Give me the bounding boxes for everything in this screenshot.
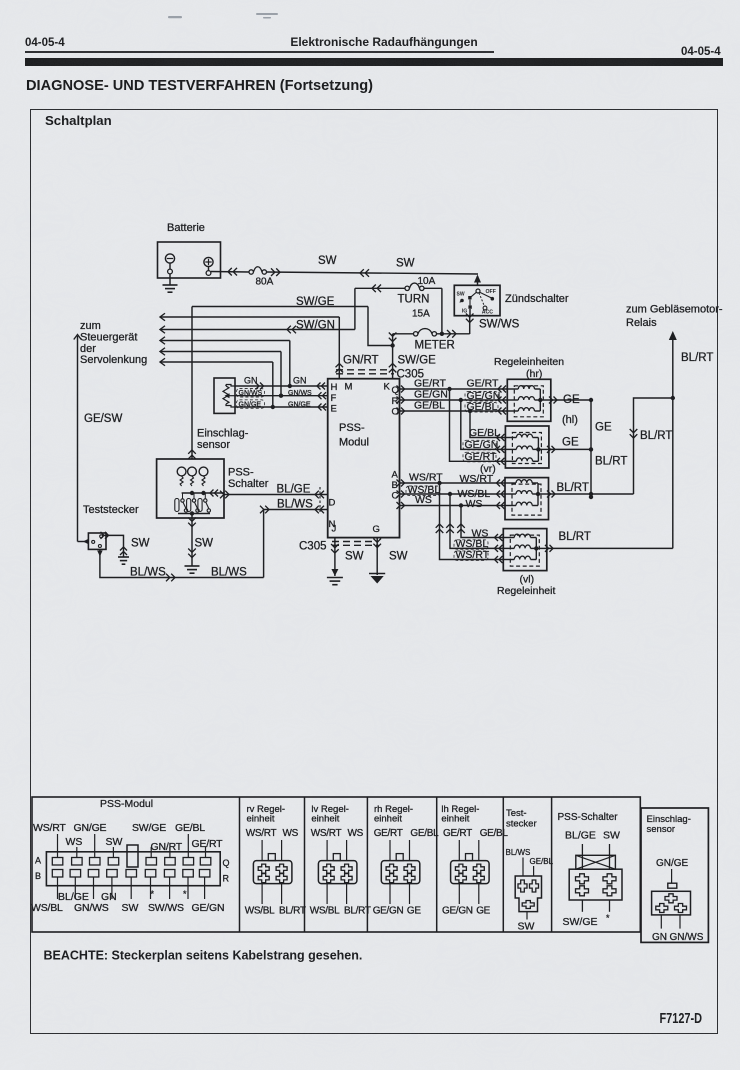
panel Test-stecker stub bottom bbox=[526, 912, 528, 920]
wire GN/GE sensor to E pin bbox=[235, 406, 328, 408]
label GN/WS (left) bbox=[237, 389, 265, 398]
wire GN tap vertical bbox=[288, 341, 292, 389]
svg-text:SW/GE: SW/GE bbox=[296, 296, 335, 308]
label panel PSS-Modul bbox=[100, 798, 153, 810]
wire steering 3 (GN tap) bbox=[160, 337, 290, 345]
panel Test-stecker label BL/WS bbox=[506, 848, 531, 857]
svg-text:GE: GE bbox=[407, 906, 421, 917]
svg-text:GE/BL: GE/BL bbox=[469, 427, 500, 439]
svg-text:PSS-Schalter: PSS-Schalter bbox=[558, 812, 619, 823]
label Einschlag-sensor (schematic) bbox=[197, 428, 249, 452]
label (vl) Regeleinheit bbox=[497, 574, 555, 598]
wire GE bus vertical bbox=[589, 400, 593, 499]
PSS switch upper bus bbox=[182, 490, 224, 497]
svg-text:(hl): (hl) bbox=[562, 414, 578, 426]
svg-text:BL/RT: BL/RT bbox=[557, 482, 589, 494]
label SW under G bbox=[389, 551, 408, 563]
svg-text:Zündschalter: Zündschalter bbox=[505, 293, 569, 305]
panel PSS-Schalter pins bbox=[576, 874, 617, 896]
svg-text:J: J bbox=[332, 524, 337, 535]
svg-text:WS: WS bbox=[283, 828, 299, 839]
svg-text:SW/WS: SW/WS bbox=[479, 319, 520, 331]
svg-text:K: K bbox=[384, 382, 391, 393]
label GE/BL (hl) bbox=[469, 427, 500, 439]
connector marks on BL/WS bottom wire bbox=[166, 574, 175, 582]
svg-text:PSS-: PSS- bbox=[339, 422, 365, 434]
panel Einschlag-sensor box bbox=[641, 808, 708, 942]
svg-text:GE/BL: GE/BL bbox=[480, 828, 509, 839]
svg-text:R: R bbox=[223, 874, 230, 884]
svg-text:GE: GE bbox=[595, 422, 612, 434]
svg-text:F: F bbox=[331, 393, 337, 404]
label GE (hl) bbox=[562, 437, 579, 449]
svg-text:*: * bbox=[606, 913, 610, 923]
svg-text:(vl): (vl) bbox=[520, 574, 535, 586]
connector panel outer box bbox=[32, 797, 640, 932]
label WS (1) bbox=[415, 494, 432, 506]
svg-text:SW: SW bbox=[345, 551, 364, 563]
svg-text:H: H bbox=[331, 382, 338, 393]
wire GE/BL from O pin bbox=[397, 408, 508, 415]
header thick rule bbox=[25, 58, 723, 66]
panel rh Regeleinheit bbox=[373, 804, 439, 917]
svg-text:Batterie: Batterie bbox=[167, 222, 205, 234]
label GE/GN (hl) bbox=[463, 439, 498, 451]
wire WS/RT drop to vl unit bbox=[436, 483, 504, 563]
svg-text:SW: SW bbox=[318, 255, 337, 267]
svg-text:GE/RT: GE/RT bbox=[192, 838, 224, 850]
svg-text:SW: SW bbox=[518, 921, 535, 933]
wire WS/BL from B pin bbox=[397, 491, 506, 498]
label SW at test connector bbox=[131, 538, 150, 550]
PSS switch lower bus bbox=[178, 511, 210, 515]
svg-text:GE/BL: GE/BL bbox=[414, 400, 445, 412]
svg-text:BL/RT: BL/RT bbox=[559, 531, 591, 543]
svg-text:BL/RT: BL/RT bbox=[595, 456, 627, 468]
pin R bbox=[392, 396, 399, 407]
panel PSS-Schalter stubs bottom bbox=[582, 900, 609, 912]
label GE/RT (hl) bbox=[463, 451, 497, 463]
label GE (bus) bbox=[595, 422, 612, 434]
svg-text:einheit: einheit bbox=[247, 814, 275, 825]
svg-text:Schalter: Schalter bbox=[228, 478, 269, 490]
svg-text:*: * bbox=[183, 889, 187, 899]
battery positive terminal bbox=[204, 257, 213, 275]
label GN/RT bbox=[343, 355, 379, 367]
svg-text:WS/RT: WS/RT bbox=[456, 549, 490, 561]
connector marks above C305 right bbox=[389, 364, 397, 373]
svg-text:BL/RT: BL/RT bbox=[681, 352, 713, 364]
svg-text:GE/BL: GE/BL bbox=[175, 822, 205, 834]
label WS/BL (1) bbox=[406, 484, 440, 496]
wire GE/RT drop to hl unit bbox=[450, 389, 506, 465]
wire SW/GE down jog to K node bbox=[368, 307, 395, 348]
svg-text:GE/BL: GE/BL bbox=[467, 401, 498, 413]
pin C bbox=[392, 491, 399, 502]
wire GN/GE tap vertical bbox=[271, 362, 275, 409]
pin G bbox=[373, 524, 380, 535]
pin Q bbox=[392, 385, 399, 396]
svg-text:GE/GN: GE/GN bbox=[373, 906, 404, 917]
wire SW/GE horizontal bbox=[192, 306, 368, 308]
wire WS/BL drop to vl unit bbox=[446, 494, 503, 552]
pin O bbox=[392, 407, 399, 418]
label (hl) bbox=[562, 414, 578, 426]
label GE/BL (1) bbox=[414, 400, 445, 412]
svg-text:GE: GE bbox=[562, 437, 579, 449]
panel PSS-Schalter labels top bbox=[565, 830, 620, 842]
label GE/BL (2) bbox=[465, 401, 498, 413]
panel Einschlag-sensor stubs bottom bbox=[661, 915, 680, 929]
svg-text:GE/GN: GE/GN bbox=[442, 906, 473, 917]
svg-text:GE/BL: GE/BL bbox=[410, 828, 439, 839]
label PSS-Schalter bbox=[228, 467, 269, 491]
svg-text:GE/RT: GE/RT bbox=[374, 828, 403, 839]
pin M bbox=[345, 382, 353, 393]
label WS/RT (1) bbox=[409, 472, 443, 484]
panel PSS-Schalter label SW/GE bbox=[563, 913, 611, 928]
panel Test-stecker label SW bbox=[518, 921, 535, 933]
svg-text:GN: GN bbox=[293, 376, 307, 386]
panel PSS-Modul labels top row1 bbox=[33, 822, 205, 834]
connector marks on battery wire bbox=[228, 268, 237, 276]
label WS/RT (2) bbox=[460, 473, 494, 485]
note BEACHTE bbox=[44, 949, 363, 963]
svg-text:E: E bbox=[331, 404, 337, 415]
svg-text:zum: zum bbox=[80, 320, 101, 332]
panel Test-stecker stubs top bbox=[523, 858, 534, 877]
label SW (right) bbox=[396, 258, 415, 270]
pin K bbox=[384, 382, 391, 393]
wire GE from hr unit bbox=[549, 397, 593, 404]
label WS (2) bbox=[466, 498, 483, 510]
svg-text:Teststecker: Teststecker bbox=[83, 504, 139, 516]
svg-text:WS: WS bbox=[66, 836, 83, 848]
svg-text:WS/RT: WS/RT bbox=[246, 828, 277, 839]
connector marks on PSS switch feed bbox=[188, 450, 196, 459]
steering angle sensor box bbox=[214, 378, 235, 413]
fuse 15A METER bbox=[414, 329, 437, 336]
panel PSS-Modul notch bbox=[127, 845, 138, 867]
panel PSS-Modul connector box bbox=[46, 852, 220, 886]
label Regeleinheiten bbox=[494, 356, 564, 380]
label BL/WS (left) bbox=[130, 567, 166, 579]
svg-text:zum Gebläsemotor-: zum Gebläsemotor- bbox=[626, 304, 723, 316]
label PSS-Modul bbox=[339, 422, 369, 449]
svg-text:GN/GE: GN/GE bbox=[239, 402, 262, 409]
svg-text:PSS-Modul: PSS-Modul bbox=[100, 798, 153, 810]
wire GE/RT from Q pin bbox=[397, 386, 508, 393]
label C305 bottom bbox=[299, 541, 327, 553]
wire GE/GN from R pin bbox=[397, 397, 508, 404]
wire SW from PSS switch to ground bbox=[188, 514, 196, 567]
svg-text:GE/SW: GE/SW bbox=[84, 413, 122, 425]
svg-text:BL/GE: BL/GE bbox=[277, 484, 311, 496]
svg-text:Q: Q bbox=[223, 858, 230, 868]
wire BL/RT from vl unit bbox=[545, 545, 673, 552]
svg-text:GN/WS: GN/WS bbox=[288, 390, 312, 397]
panel PSS-Modul labels bottom row1 bbox=[58, 891, 117, 903]
label SW (left) bbox=[318, 255, 337, 267]
pin A bbox=[392, 470, 399, 481]
panel Einschlag-sensor connector bbox=[652, 891, 691, 915]
svg-text:SW: SW bbox=[122, 902, 139, 914]
panel divider at 239.5 bbox=[239, 797, 241, 932]
label SW/GN bbox=[296, 320, 335, 332]
svg-text:GN/WS: GN/WS bbox=[74, 902, 109, 914]
ignition switch U1 box bbox=[454, 285, 500, 315]
label BL/RT (vl) bbox=[559, 531, 591, 543]
svg-text:einheit: einheit bbox=[374, 814, 402, 825]
wire BL/RT from vr unit bbox=[547, 491, 634, 498]
svg-text:WS/RT: WS/RT bbox=[33, 822, 66, 834]
wire SW/GN vertical to 10A fuse bbox=[354, 288, 356, 329]
panel PSS-Schalter title bbox=[558, 812, 619, 823]
connector marks after fuse 80A bbox=[271, 268, 280, 276]
svg-text:WS/RT: WS/RT bbox=[409, 472, 443, 484]
svg-text:ACC: ACC bbox=[482, 309, 493, 315]
page header right page number bbox=[681, 46, 721, 58]
label SW/GE (at C305) bbox=[398, 355, 437, 367]
label GE/RT (2) bbox=[467, 378, 499, 390]
connector marks on SW/GN wire bbox=[287, 326, 296, 334]
wire GN/RT vertical to M pin bbox=[338, 317, 340, 379]
svg-text:Regeleinheiten: Regeleinheiten bbox=[494, 356, 564, 368]
svg-text:einheit: einheit bbox=[311, 814, 339, 825]
panel Einschlag-sensor stub top bbox=[671, 869, 673, 883]
panel PSS-Modul pin stubs bottom bbox=[58, 877, 205, 899]
svg-text:A: A bbox=[35, 856, 41, 866]
svg-text:G: G bbox=[373, 524, 380, 535]
wire BL/WS from test connector bottom bbox=[97, 549, 263, 577]
pin E bbox=[331, 404, 337, 415]
svg-text:Einschlag-: Einschlag- bbox=[197, 428, 249, 440]
section heading bbox=[26, 78, 373, 94]
svg-text:TURN: TURN bbox=[398, 294, 430, 306]
connector marks mid SW wire bbox=[360, 269, 369, 277]
wire GN/WS tap vertical bbox=[279, 352, 283, 398]
svg-text:B: B bbox=[35, 871, 41, 881]
svg-text:80A: 80A bbox=[256, 277, 274, 288]
svg-text:Test-: Test- bbox=[506, 808, 527, 819]
svg-text:SW/WS: SW/WS bbox=[148, 902, 184, 914]
PSS switch contacts bbox=[175, 493, 211, 512]
label BL/WS at N pin bbox=[277, 499, 313, 511]
svg-text:GN: GN bbox=[244, 376, 258, 386]
svg-text:BL/GE: BL/GE bbox=[565, 830, 596, 842]
label GN/GE (left) bbox=[237, 400, 265, 409]
svg-text:A: A bbox=[392, 470, 399, 481]
ground under PSS switch bbox=[185, 566, 200, 573]
panel PSS-Modul labels top row2 bbox=[66, 836, 224, 853]
svg-text:Servolenkung: Servolenkung bbox=[80, 354, 147, 366]
label WS/BL (2) bbox=[458, 488, 491, 500]
ground at battery bbox=[163, 274, 178, 292]
svg-text:F7127-D: F7127-D bbox=[660, 1011, 703, 1027]
pin B bbox=[392, 480, 398, 491]
svg-text:GN/RT: GN/RT bbox=[343, 355, 379, 367]
label SW under PSS switch bbox=[195, 538, 214, 550]
connector dashes at D N pins bbox=[319, 487, 321, 514]
pin F bbox=[331, 393, 337, 404]
label GN/WS (right) bbox=[288, 390, 326, 399]
battery B1 box bbox=[158, 222, 221, 278]
svg-text:GE/RT: GE/RT bbox=[467, 378, 499, 390]
panel divider at 304.5 bbox=[304, 797, 306, 932]
drawing number F7127-D bbox=[660, 1011, 703, 1027]
PSS module U2 box bbox=[328, 379, 400, 538]
svg-text:sensor: sensor bbox=[197, 439, 230, 451]
PSS switch lamp leads bbox=[180, 476, 205, 486]
wire GN/WS sensor to F pin bbox=[235, 395, 328, 397]
connector marks BL/WS at N pin bbox=[315, 506, 324, 514]
svg-text:Modul: Modul bbox=[339, 437, 369, 449]
wire steering 4 (GN/WS tap) bbox=[160, 348, 281, 356]
svg-text:GN/GE: GN/GE bbox=[656, 858, 689, 869]
svg-text:GN/WS: GN/WS bbox=[239, 390, 263, 397]
wire SW/GN to steering bbox=[160, 326, 355, 334]
svg-text:BL/WS: BL/WS bbox=[506, 848, 531, 857]
wire into ignition switch with up arrow bbox=[474, 275, 481, 286]
svg-text:*: * bbox=[151, 889, 155, 899]
panel pin letters A B Q R bbox=[35, 856, 230, 884]
panel Test-stecker connector bbox=[515, 876, 541, 912]
panel rv Regeleinheit bbox=[245, 804, 306, 917]
fuse 80A bbox=[249, 267, 274, 288]
label WS/RT (vl) bbox=[454, 549, 490, 561]
panel Test-stecker pins bbox=[518, 880, 539, 909]
svg-text:15A: 15A bbox=[412, 309, 430, 320]
svg-text:BL/RT: BL/RT bbox=[640, 430, 672, 442]
panel divider at 436.7 bbox=[436, 797, 438, 932]
control unit vl bbox=[503, 529, 547, 571]
panel PSS-Modul pin stubs top bbox=[58, 834, 206, 858]
ground at G pin bbox=[369, 574, 385, 584]
wire WS drop to vl unit bbox=[457, 506, 503, 542]
svg-text:GN/GE: GN/GE bbox=[74, 822, 107, 834]
svg-text:GN/GE: GN/GE bbox=[288, 402, 311, 409]
label GE/GN (2) bbox=[465, 390, 500, 402]
label 15A bbox=[412, 309, 430, 320]
wire BL/RT mid vertical bbox=[630, 396, 675, 494]
svg-text:BL/RT: BL/RT bbox=[344, 906, 371, 917]
svg-text:GE/RT: GE/RT bbox=[443, 828, 472, 839]
label TURN bbox=[398, 294, 430, 306]
label zum Geblaesemotor-Relais bbox=[626, 304, 723, 330]
wire SW from battery to fuse 80A bbox=[211, 271, 249, 274]
svg-text:SW: SW bbox=[457, 292, 465, 298]
connector C305 bottom dashes bbox=[332, 542, 379, 546]
test connector X1 box bbox=[88, 533, 106, 549]
page header title bbox=[14, 35, 740, 49]
svg-text:sensor: sensor bbox=[647, 824, 676, 835]
label GN (left) bbox=[244, 376, 258, 386]
fuse 10A TURN bbox=[405, 276, 436, 290]
wire GE from hl unit bbox=[547, 446, 593, 453]
svg-text:GN/WS: GN/WS bbox=[670, 932, 704, 943]
svg-text:GN: GN bbox=[652, 932, 667, 943]
control unit vr bbox=[505, 478, 549, 520]
svg-text:einheit: einheit bbox=[441, 814, 469, 825]
wire SW fuse to ignition switch bbox=[267, 272, 479, 274]
wire BL/RT main riser bbox=[669, 331, 677, 548]
svg-text:Relais: Relais bbox=[626, 317, 657, 329]
label Schaltplan bbox=[45, 113, 112, 128]
wire ignition switch IG to METER wire bbox=[466, 309, 474, 334]
pin D bbox=[329, 498, 336, 509]
label SW/GE (upper left) bbox=[296, 296, 335, 308]
svg-text:GE/GN: GE/GN bbox=[192, 902, 225, 914]
label BL/GE bbox=[277, 484, 311, 496]
svg-text:SW/GE: SW/GE bbox=[398, 355, 437, 367]
label GE/SW bbox=[84, 413, 122, 425]
label WS (vl) bbox=[472, 528, 489, 540]
ground at J pin bbox=[327, 578, 343, 585]
wire GE/GN drop to hl unit bbox=[461, 400, 506, 453]
label BL/RT (bus) bbox=[595, 456, 627, 468]
panel divider at 551.6 bbox=[551, 797, 553, 932]
panel PSS-Schalter stubs top bbox=[582, 844, 609, 869]
label Teststecker bbox=[83, 504, 139, 516]
wire GE/BL drop to hl unit bbox=[470, 411, 505, 441]
pin N bbox=[329, 519, 336, 530]
label BL/RT (vr) bbox=[557, 482, 589, 494]
svg-text:BL/WS: BL/WS bbox=[211, 567, 247, 579]
wire K pin vertical from METER bbox=[389, 333, 397, 379]
wire J pin to ground bbox=[331, 538, 339, 576]
panel PSS-Modul labels bottom row2 bbox=[31, 902, 224, 914]
svg-text:SW: SW bbox=[106, 836, 123, 848]
svg-text:BL/WS: BL/WS bbox=[277, 499, 313, 511]
wire steering 5 (GN/GE tap) bbox=[160, 358, 273, 366]
svg-text:Steuergerät: Steuergerät bbox=[80, 332, 137, 344]
svg-text:(vr): (vr) bbox=[480, 463, 496, 475]
svg-text:SW: SW bbox=[603, 830, 620, 842]
panel divider at 367.4 bbox=[366, 797, 368, 932]
label (vr) bbox=[480, 463, 496, 475]
panel lv Regeleinheit bbox=[310, 804, 371, 917]
battery negative terminal bbox=[165, 254, 174, 274]
svg-text:BL/WS: BL/WS bbox=[130, 567, 166, 579]
label GE/GN (1) bbox=[414, 389, 448, 401]
PSS switch lamps bbox=[177, 467, 208, 476]
svg-text:BEACHTE: Steckerplan seitens K: BEACHTE: Steckerplan seitens Kabelstrang… bbox=[44, 949, 363, 963]
svg-text:GE: GE bbox=[563, 394, 580, 406]
wire SW from test connector to ground bbox=[101, 532, 128, 557]
panel divider at 503.3 bbox=[502, 797, 504, 932]
svg-text:WS/BL: WS/BL bbox=[31, 902, 63, 914]
label GE/RT (1) bbox=[414, 378, 446, 390]
label METER bbox=[415, 340, 455, 352]
panel PSS-Schalter connector box bbox=[569, 869, 622, 900]
ignition switch rotor bbox=[457, 289, 496, 315]
label SW/WS bbox=[479, 319, 520, 331]
svg-text:SW: SW bbox=[396, 258, 415, 270]
panel Einschlag-sensor pins bbox=[656, 894, 687, 913]
label Zuendschalter bbox=[505, 293, 569, 305]
pin J bbox=[332, 524, 337, 535]
svg-text:WS/BL: WS/BL bbox=[245, 906, 275, 917]
svg-text:GE: GE bbox=[476, 906, 490, 917]
test connector pins bbox=[92, 535, 103, 548]
svg-text:(hr): (hr) bbox=[526, 368, 542, 380]
connector marks on BL/WS riser bbox=[260, 506, 269, 514]
wire WS/RT from A pin bbox=[397, 480, 506, 487]
svg-text:Regeleinheit: Regeleinheit bbox=[497, 585, 555, 597]
pin H bbox=[331, 382, 338, 393]
wire from 10A fuse down to METER wire bbox=[440, 288, 444, 336]
wire GE/SW vertical bbox=[74, 335, 82, 542]
